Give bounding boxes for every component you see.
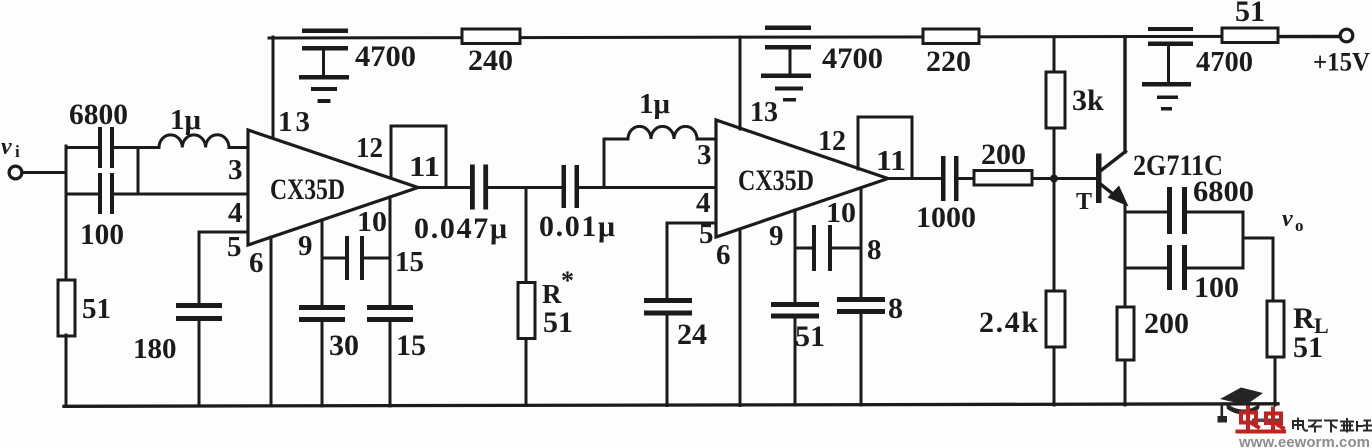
label vo: [1282, 206, 1304, 235]
svg-text:4: 4: [696, 187, 711, 219]
pin 13 label U2: [750, 96, 778, 128]
svg-text:10: 10: [826, 197, 856, 229]
feedback box U1 pins 12-11: [391, 126, 446, 187]
svg-text:0.01μ: 0.01μ: [539, 210, 615, 243]
pin 6 label: [249, 247, 264, 279]
capacitor 100 (input): [98, 173, 114, 214]
transistor Q1 2G711C: [1096, 37, 1129, 207]
svg-text:9: 9: [769, 220, 784, 252]
capacitor 1000: [941, 156, 959, 201]
pin 10 wire U2: [860, 188, 863, 297]
node base junction dot: [1050, 175, 1058, 183]
svg-text:www.eeworm.com: www.eeworm.com: [1238, 434, 1370, 448]
pin 3 label: [228, 154, 243, 186]
resistor 51 (input shunt): [58, 280, 75, 336]
capacitor 4700 (stage2 supply bypass): [765, 26, 811, 50]
capacitor 30: [299, 305, 345, 406]
pin 12 label U2: [818, 125, 846, 157]
watermark logo graduation cap: [1218, 388, 1264, 423]
svg-text:R: R: [542, 279, 562, 309]
resistor 220: [923, 29, 979, 44]
op-amp U2 CX35D: [716, 120, 888, 237]
pin 5 wire: [199, 231, 248, 234]
node output vertical: [1242, 212, 1245, 268]
svg-text:4700: 4700: [355, 40, 416, 73]
wire input: [22, 171, 66, 174]
wire inductor2 to pin 3: [697, 138, 716, 141]
svg-text:11: 11: [876, 145, 906, 177]
pin 5 label U2: [699, 218, 714, 250]
pin 9 label: [298, 230, 313, 262]
wire 1000 to 200: [959, 177, 975, 180]
svg-text:220: 220: [926, 45, 971, 78]
resistor 2.4k: [1046, 179, 1065, 406]
svg-text:o: o: [1295, 216, 1304, 235]
watermark url: [1238, 434, 1370, 448]
capacitor 0.047u: [470, 165, 488, 210]
pin 11 label U2: [876, 145, 906, 177]
svg-text:51: 51: [1235, 0, 1265, 28]
svg-text:13: 13: [278, 106, 310, 138]
svg-text:4700: 4700: [1196, 46, 1253, 78]
wire 6800 right: [1187, 211, 1243, 214]
svg-text:51: 51: [1293, 331, 1323, 364]
resistor 51 (supply series): [1222, 28, 1278, 43]
svg-text:CX35D: CX35D: [738, 164, 814, 197]
wire vo tap: [1243, 238, 1273, 301]
wire emitter to output caps: [1125, 211, 1167, 214]
svg-text:180: 180: [133, 333, 177, 365]
node B vertical junction: [137, 148, 140, 195]
wire to U2 pin 4: [579, 186, 716, 189]
svg-text:12: 12: [356, 132, 383, 164]
pin 13 wire U2: [739, 37, 742, 129]
capacitor 6800 (input): [98, 127, 114, 168]
watermark red chars: [1238, 408, 1285, 432]
pin 13 label: [278, 106, 310, 138]
wire 200 to base: [1032, 177, 1096, 180]
svg-text:9: 9: [298, 230, 313, 262]
pin 10 label U2: [826, 197, 856, 229]
svg-text:v: v: [1282, 206, 1293, 232]
svg-text:6: 6: [249, 247, 264, 279]
svg-text:3: 3: [697, 139, 712, 171]
inductor 1u (stage 1): [159, 135, 229, 148]
svg-text:+15V: +15V: [1313, 48, 1370, 77]
wire riser to inductor 2: [604, 139, 628, 188]
wire top path to caps: [66, 146, 98, 149]
svg-text:CX35D: CX35D: [270, 173, 345, 206]
wire U1 output: [418, 186, 470, 189]
svg-text:200: 200: [1144, 307, 1189, 340]
svg-text:100: 100: [80, 218, 124, 251]
wire 200 emitter to ground: [1124, 360, 1127, 405]
svg-text:8: 8: [867, 234, 882, 266]
svg-text:2.4k: 2.4k: [979, 306, 1038, 339]
capacitor 100 (output bottom): [1167, 245, 1187, 290]
pin 12 label: [356, 132, 383, 164]
pin 9 wire U2: [794, 210, 797, 302]
pin 6 label U2: [716, 239, 731, 271]
capacitor 15 (pin 10 shunt): [367, 305, 413, 406]
svg-text:13: 13: [750, 96, 778, 128]
svg-text:24: 24: [677, 318, 707, 351]
svg-text:15: 15: [395, 246, 424, 278]
svg-text:12: 12: [818, 125, 846, 157]
pin 10 wire: [389, 197, 392, 305]
label T: [1076, 189, 1092, 215]
wire resistor to ground rail: [65, 335, 68, 406]
svg-text:i: i: [15, 142, 20, 161]
watermark bar: [1252, 419, 1283, 423]
input terminal vi: [9, 166, 22, 179]
op-amp U1 CX35D: [248, 130, 418, 245]
svg-text:3: 3: [228, 154, 243, 186]
resistor 200 (emitter): [1117, 307, 1134, 360]
pin 4 label U2: [696, 187, 711, 219]
svg-text:8: 8: [888, 292, 903, 325]
svg-text:5: 5: [227, 231, 242, 263]
wire top supply rail: [269, 36, 1341, 38]
svg-text:51: 51: [543, 306, 573, 339]
svg-text:0.047μ: 0.047μ: [414, 212, 507, 245]
pin 4 label: [228, 197, 243, 229]
node A vertical: [65, 146, 68, 280]
wire bottom ground rail: [64, 404, 1278, 407]
pin 6 wire to ground: [270, 237, 273, 406]
pin 9 wire: [321, 220, 324, 305]
ground (stage1 bypass): [299, 75, 349, 103]
ground (output bypass): [1142, 82, 1191, 111]
svg-text:3k: 3k: [1072, 84, 1104, 117]
capacitor 8 (pin 10 shunt): [837, 297, 885, 405]
wire after 6800: [114, 146, 159, 149]
svg-text:1000: 1000: [916, 201, 976, 234]
svg-text:1μ: 1μ: [639, 88, 671, 120]
capacitor 8 (pins 9-10): [795, 225, 861, 271]
inductor 1u (stage 2): [628, 126, 697, 139]
resistor 200 (series base): [974, 171, 1032, 186]
svg-text:51: 51: [82, 293, 111, 325]
pin 5 label: [227, 231, 242, 263]
wire emitter down: [1124, 205, 1127, 307]
svg-text:240: 240: [468, 44, 513, 77]
ground (stage2 bypass): [761, 74, 811, 102]
terminal +15V: [1340, 29, 1353, 42]
pin 3 label U2: [697, 139, 712, 171]
svg-text:51: 51: [795, 320, 825, 353]
capacitor 0.01u: [562, 165, 580, 208]
capacitor 15 (pins 9-10): [322, 236, 390, 280]
pin 10 label: [357, 206, 387, 238]
svg-text:1μ: 1μ: [170, 104, 202, 136]
wire to 100 cap: [1125, 267, 1167, 270]
svg-text:6800: 6800: [1193, 175, 1254, 208]
watermark chinese text: [1293, 419, 1371, 432]
svg-text:T: T: [1076, 189, 1092, 215]
capacitor 6800 (output top): [1167, 187, 1187, 234]
resistor 240 (supply decoupling): [462, 29, 520, 44]
pin 6 wire U2: [739, 229, 742, 406]
capacitor 4700 (output supply bypass): [1148, 27, 1193, 46]
wire inductor to pin 3: [229, 146, 248, 149]
wire 100 right: [1187, 267, 1243, 270]
svg-text:11: 11: [409, 151, 440, 183]
pin 13 wire: [272, 37, 275, 137]
pin 5 wire U2: [667, 222, 716, 225]
svg-text:*: *: [561, 266, 574, 295]
wire bottom path: [66, 193, 248, 196]
svg-text:10: 10: [357, 206, 387, 238]
feedback box U2 pins 12-11: [858, 117, 912, 179]
wire to +15V terminal: [1278, 35, 1341, 38]
resistor 3k: [1046, 37, 1065, 179]
svg-text:5: 5: [699, 218, 714, 250]
pin 9 label U2: [769, 220, 784, 252]
svg-text:15: 15: [396, 329, 426, 362]
wire U2 output: [888, 177, 941, 180]
svg-text:100: 100: [1194, 271, 1239, 304]
capacitor 180: [176, 232, 222, 406]
svg-text:4700: 4700: [822, 42, 883, 75]
pin 11 label: [409, 151, 440, 183]
svg-text:4: 4: [228, 197, 243, 229]
svg-text:30: 30: [329, 329, 359, 362]
wire to node C: [488, 186, 562, 189]
svg-text:6800: 6800: [69, 98, 128, 131]
resistor RL 51: [1267, 301, 1284, 405]
svg-text:200: 200: [981, 138, 1026, 171]
svg-text:v: v: [1, 134, 12, 160]
svg-text:6: 6: [716, 239, 731, 271]
capacitor 51 (pin 9 shunt): [771, 302, 819, 405]
capacitor 24: [644, 223, 692, 406]
resistor R* 51: [518, 188, 535, 406]
label vi: [1, 134, 20, 161]
capacitor 4700 (stage1 supply bypass): [302, 29, 348, 51]
